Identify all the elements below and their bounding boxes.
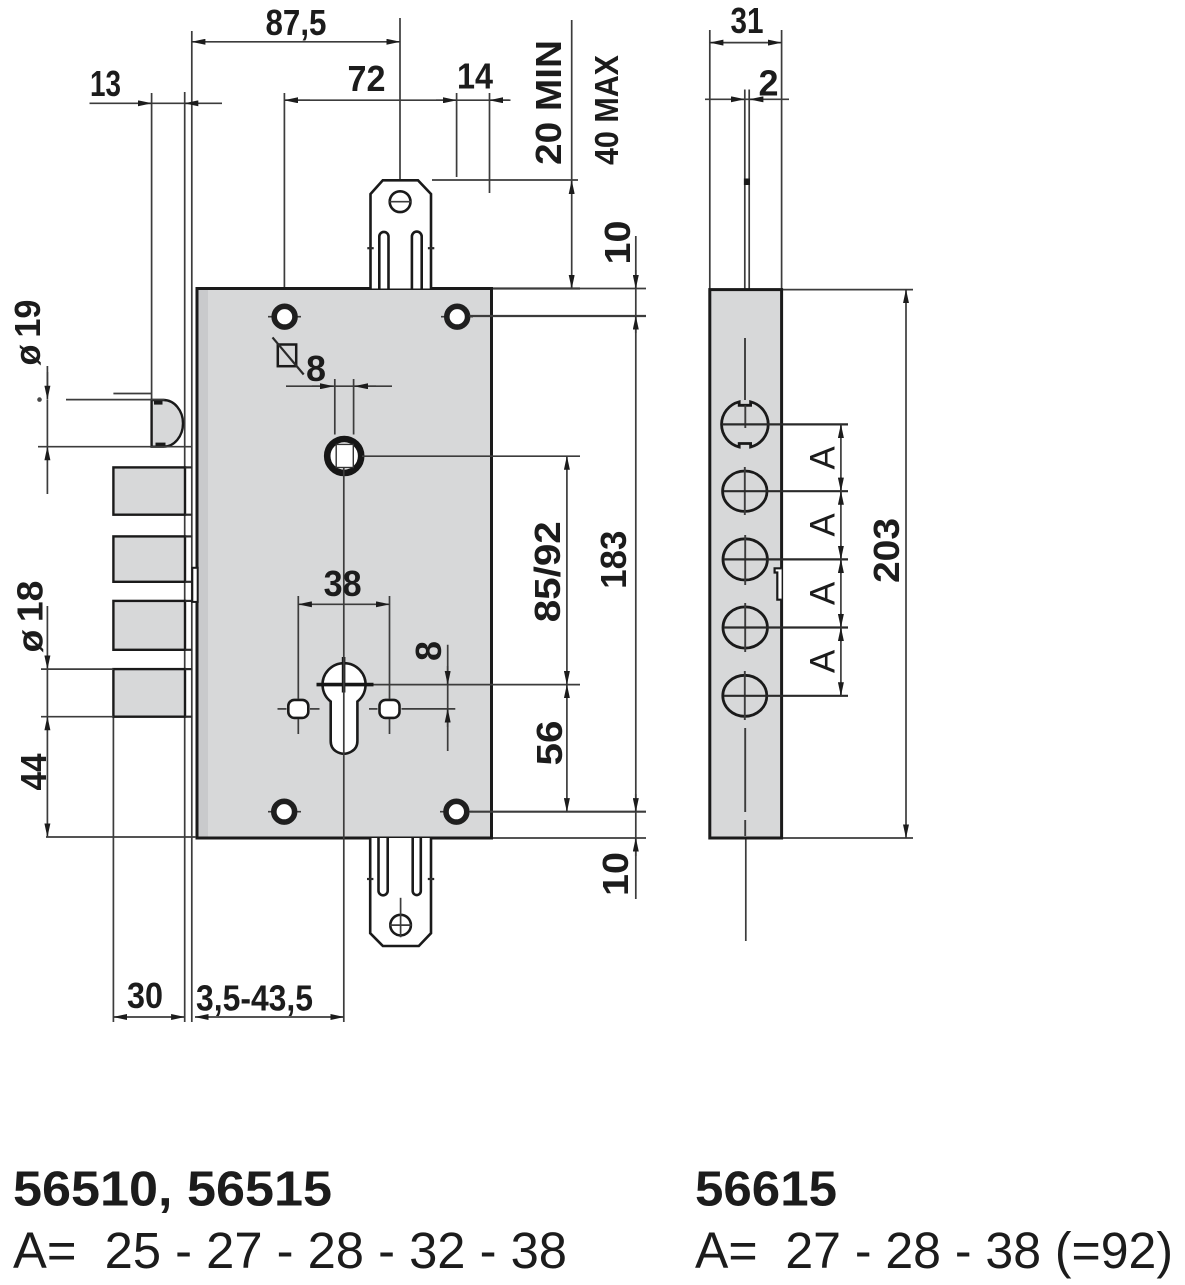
svg-text:8: 8 xyxy=(306,348,326,389)
svg-text:56: 56 xyxy=(529,721,570,766)
svg-text:85/92: 85/92 xyxy=(527,521,568,622)
svg-text:56615: 56615 xyxy=(695,1163,837,1217)
svg-text:183: 183 xyxy=(593,531,634,589)
svg-text:A= 25 - 27 - 28 - 32 - 38: A= 25 - 27 - 28 - 32 - 38 xyxy=(13,1222,567,1279)
svg-text:38: 38 xyxy=(324,563,362,604)
svg-text:2: 2 xyxy=(758,63,778,104)
svg-text:A: A xyxy=(804,581,843,605)
svg-text:3,5-43,5: 3,5-43,5 xyxy=(196,978,313,1019)
svg-text:ø 18: ø 18 xyxy=(10,581,51,653)
svg-text:A: A xyxy=(804,649,843,673)
svg-text:10: 10 xyxy=(597,221,638,265)
svg-text:A: A xyxy=(804,446,843,470)
svg-text:14: 14 xyxy=(457,56,493,97)
svg-text:40 MAX: 40 MAX xyxy=(588,55,625,165)
svg-text:203: 203 xyxy=(866,518,907,583)
svg-text:72: 72 xyxy=(348,58,386,99)
svg-text:44: 44 xyxy=(13,754,54,791)
svg-text:13: 13 xyxy=(90,63,121,104)
svg-text:20 MIN: 20 MIN xyxy=(528,40,569,165)
svg-text:31: 31 xyxy=(731,0,764,41)
svg-text:ø 19: ø 19 xyxy=(7,300,48,366)
svg-text:56510, 56515: 56510, 56515 xyxy=(13,1163,332,1217)
svg-text:A= 27 - 28 - 38 (=92): A= 27 - 28 - 38 (=92) xyxy=(695,1222,1173,1279)
svg-text:A: A xyxy=(804,513,843,537)
svg-text:87,5: 87,5 xyxy=(266,2,327,43)
svg-text:30: 30 xyxy=(127,975,163,1016)
svg-text:10: 10 xyxy=(595,852,636,896)
svg-text:8: 8 xyxy=(408,641,449,661)
